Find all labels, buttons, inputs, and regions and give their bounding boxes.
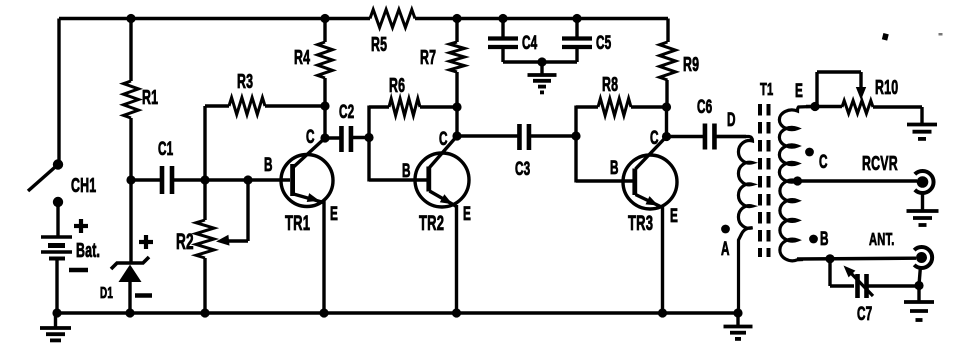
svg-text:R5: R5 bbox=[371, 33, 387, 56]
capacitor C5 bbox=[562, 19, 611, 63]
wire R4 node to collector node bbox=[323, 106, 326, 138]
node junction bottom rail / R2 bbox=[200, 308, 209, 317]
svg-text:C: C bbox=[819, 152, 828, 172]
svg-text:C2: C2 bbox=[339, 102, 354, 122]
node junction top rail / R7 bbox=[452, 14, 461, 23]
svg-text:TR2: TR2 bbox=[419, 211, 444, 235]
capacitor C6 bbox=[667, 97, 747, 149]
TR1 collector label C bbox=[306, 127, 315, 147]
node junction TR1 collector / C2 bbox=[320, 133, 329, 142]
svg-text:B: B bbox=[402, 161, 411, 181]
node junction TR2 collector / C3 bbox=[452, 131, 461, 140]
svg-text:T1: T1 bbox=[760, 79, 773, 99]
transistor TR3 bbox=[623, 137, 677, 235]
capacitor C7 (variable) bbox=[844, 266, 920, 325]
resistor R1 bbox=[124, 81, 159, 118]
wire base line to TR1 bbox=[205, 178, 290, 181]
ground at T1 bbox=[724, 313, 753, 339]
RCVR jack bbox=[915, 171, 934, 193]
transformer T1 primary winding bbox=[714, 137, 753, 314]
capacitor C1 bbox=[131, 139, 205, 194]
svg-text:D1: D1 bbox=[100, 284, 113, 302]
ground at RCVR bbox=[907, 193, 939, 225]
wire C1 node to D1 bbox=[129, 180, 132, 264]
node junction bottom rail / battery bbox=[52, 308, 61, 317]
resistor R7 bbox=[420, 19, 465, 108]
transformer T1 secondary winding bbox=[779, 107, 812, 261]
resistor R3 bbox=[205, 70, 325, 115]
svg-text:R8: R8 bbox=[602, 73, 618, 96]
ANT jack bbox=[914, 247, 932, 268]
ground at R10 bbox=[907, 125, 937, 139]
node D label bbox=[727, 110, 736, 130]
node junction R3 / R4 bbox=[320, 101, 329, 110]
wire ANT jack to ground bbox=[919, 266, 921, 285]
wire TR1 emitter to rail bbox=[322, 201, 325, 313]
node junction bottom rail / T1 bbox=[733, 308, 742, 317]
wire bottom ground rail bbox=[57, 311, 738, 314]
svg-text:C: C bbox=[439, 129, 448, 149]
TR3 emitter label E bbox=[670, 206, 678, 226]
ANT label bbox=[869, 229, 895, 249]
transistor TR2 bbox=[415, 136, 469, 235]
wire battery to ground rail bbox=[55, 258, 58, 313]
resistor R5 bbox=[370, 10, 415, 56]
svg-text:C4: C4 bbox=[522, 33, 537, 53]
wire left vertical from rail to switch bbox=[57, 19, 60, 165]
svg-text:D: D bbox=[727, 110, 736, 130]
svg-text:C7: C7 bbox=[857, 304, 872, 324]
svg-text:E: E bbox=[330, 204, 338, 224]
node B tap bbox=[809, 229, 829, 249]
ground at battery bbox=[40, 313, 71, 340]
svg-text:C5: C5 bbox=[596, 33, 611, 53]
TR3 collector label C bbox=[650, 128, 659, 148]
battery Bat. bbox=[41, 237, 100, 262]
svg-text:CH1: CH1 bbox=[71, 174, 96, 197]
capacitor C2 bbox=[325, 102, 369, 152]
wire E node to R10 bbox=[806, 105, 842, 108]
capacitor C3 bbox=[457, 124, 576, 180]
wire rail to R1 bbox=[129, 19, 132, 82]
node junction C4-C5 bus bbox=[537, 57, 546, 66]
svg-text:R2: R2 bbox=[176, 229, 194, 254]
wire secondary bottom to ANT jack bbox=[797, 257, 916, 261]
node junction R6 / R7 bbox=[452, 102, 461, 111]
wire C3 riser down to TR3 base bbox=[576, 136, 633, 183]
resistor R6 bbox=[389, 74, 457, 116]
node junction C2 / riser bbox=[364, 133, 373, 142]
node junction base / R3-R2 bbox=[200, 175, 209, 184]
svg-text:B: B bbox=[264, 155, 273, 175]
switch CH1 bbox=[28, 159, 96, 207]
svg-text:R3: R3 bbox=[237, 70, 253, 93]
wire C4-C5 ground bus bbox=[503, 60, 577, 63]
resistor R2 (potentiometer) bbox=[176, 180, 214, 313]
wire R7 node to TR2 collector bbox=[455, 107, 458, 136]
wire top supply rail right segment bbox=[415, 17, 668, 20]
node A bbox=[721, 225, 730, 260]
svg-text:RCVR: RCVR bbox=[862, 152, 898, 175]
svg-text:A: A bbox=[721, 239, 730, 259]
node junction bottom rail / TR1 emitter bbox=[319, 308, 328, 317]
wire top supply rail left segment bbox=[59, 17, 370, 20]
node junction base / R2 wiper bbox=[243, 175, 252, 184]
svg-text:C1: C1 bbox=[158, 139, 173, 159]
TR3 base label B bbox=[610, 158, 619, 178]
transformer T1 core bbox=[760, 104, 769, 257]
wire TR2 emitter to rail bbox=[455, 205, 458, 313]
capacitor C4 bbox=[488, 19, 537, 63]
node junction bottom rail / TR2 emitter bbox=[452, 308, 461, 317]
node junction top rail / C5 bbox=[572, 14, 581, 23]
resistor R8 bbox=[598, 73, 667, 116]
TR2 base label B bbox=[402, 161, 411, 181]
R10 wiper loop bbox=[817, 72, 866, 107]
node junction C7 top bbox=[825, 254, 834, 263]
node junction C3 / riser bbox=[571, 131, 580, 140]
node junction R8 / R9 bbox=[662, 102, 671, 111]
D1 minus sign bbox=[135, 293, 152, 297]
wire R10 to ground bbox=[873, 107, 922, 123]
node C tap bbox=[805, 148, 828, 173]
TR2 collector label C bbox=[439, 129, 448, 149]
node junction bottom rail / TR3 emitter bbox=[658, 308, 667, 317]
node E (T1 top) bbox=[795, 81, 820, 111]
resistor R10 bbox=[842, 76, 898, 114]
svg-text:C6: C6 bbox=[697, 97, 712, 117]
node junction secondary RCVR tap bbox=[793, 176, 802, 185]
wire TR3 emitter to rail bbox=[661, 206, 664, 313]
printing speck bbox=[882, 33, 943, 41]
svg-text:B: B bbox=[610, 158, 619, 178]
wire R1 to C1 node bbox=[129, 118, 132, 180]
ground at C4-C5 bbox=[528, 62, 557, 92]
wire C3 riser up to R8 bbox=[576, 106, 598, 137]
node junction top rail / R4 bbox=[320, 14, 329, 23]
wire C2 riser down to TR2 base bbox=[369, 138, 427, 182]
ground at ANT bbox=[904, 286, 934, 321]
wire R3 left vertical bbox=[203, 106, 206, 180]
wire tap to RCVR jack bbox=[798, 179, 918, 182]
svg-text:R4: R4 bbox=[294, 46, 311, 69]
RCVR label bbox=[862, 152, 898, 175]
svg-text:R6: R6 bbox=[389, 74, 405, 97]
R2 wiper arm bbox=[216, 180, 248, 246]
svg-text:B: B bbox=[820, 229, 829, 249]
svg-text:Bat.: Bat. bbox=[76, 239, 100, 262]
svg-text:R10: R10 bbox=[875, 76, 898, 99]
wire switch to battery bbox=[56, 202, 59, 237]
TR1 emitter label E bbox=[330, 204, 338, 224]
TR1 base label B bbox=[264, 155, 273, 175]
svg-text:ANT.: ANT. bbox=[869, 229, 895, 249]
svg-text:R9: R9 bbox=[683, 53, 699, 76]
TR2 emitter label E bbox=[463, 204, 471, 224]
svg-text:C: C bbox=[306, 127, 315, 147]
battery minus sign bbox=[69, 268, 88, 272]
svg-text:C3: C3 bbox=[515, 159, 530, 179]
svg-text:TR1: TR1 bbox=[285, 211, 310, 235]
wire C7 branch bbox=[830, 259, 854, 286]
T1 label bbox=[760, 79, 773, 99]
D1 plus sign bbox=[139, 235, 153, 249]
svg-text:E: E bbox=[795, 81, 803, 101]
svg-text:TR3: TR3 bbox=[628, 211, 653, 235]
svg-text:R1: R1 bbox=[142, 86, 158, 109]
node junction ANT ground bbox=[914, 281, 923, 290]
svg-text:C: C bbox=[650, 128, 659, 148]
resistor R9 bbox=[660, 19, 700, 108]
transistor TR1 bbox=[281, 138, 333, 235]
svg-text:R7: R7 bbox=[420, 46, 436, 69]
node junction bottom rail / D1 bbox=[125, 308, 134, 317]
wire R9 node to TR3 collector bbox=[665, 107, 668, 137]
node junction R1 / C1 bbox=[126, 175, 135, 184]
battery plus sign bbox=[74, 219, 88, 233]
svg-text:E: E bbox=[463, 204, 471, 224]
node junction TR3 collector / C6 bbox=[662, 132, 671, 141]
diode D1 (zener) bbox=[100, 257, 149, 313]
svg-text:E: E bbox=[670, 206, 678, 226]
resistor R4 bbox=[294, 19, 333, 107]
wire C2 riser up to R6 bbox=[369, 106, 389, 138]
node junction top rail / C4 bbox=[498, 14, 507, 23]
node junction top rail / R1 bbox=[126, 14, 135, 23]
